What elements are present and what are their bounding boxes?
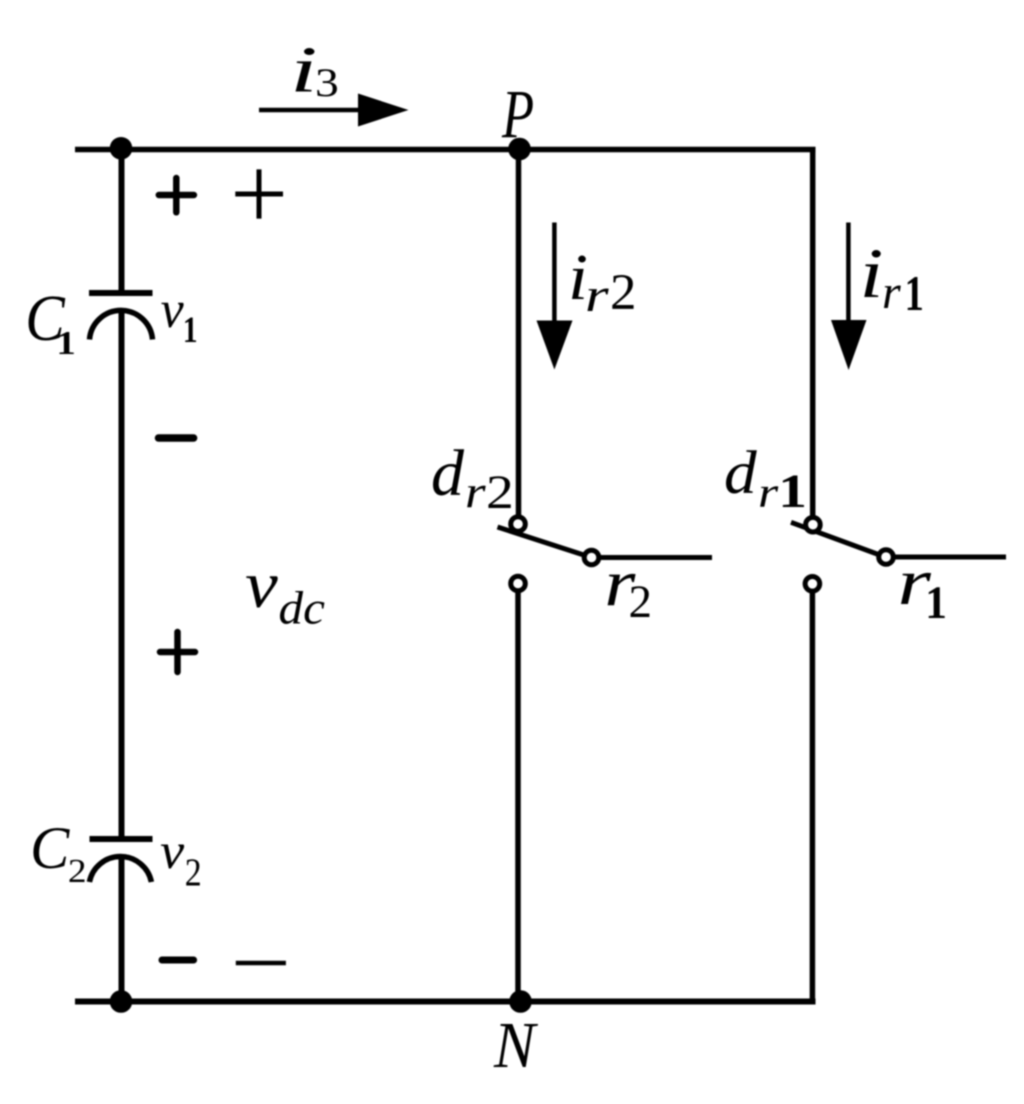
svg-text:C: C [30, 815, 70, 882]
svg-text:3: 3 [315, 60, 339, 105]
svg-text:1: 1 [925, 577, 947, 629]
svg-text:r: r [465, 466, 486, 517]
svg-text:2: 2 [486, 466, 514, 519]
svg-text:v: v [160, 823, 184, 879]
svg-text:2: 2 [629, 576, 653, 628]
svg-text:i: i [290, 34, 318, 107]
svg-text:1: 1 [778, 466, 807, 518]
svg-text:v: v [245, 547, 278, 622]
svg-text:P: P [501, 75, 534, 152]
svg-text:d: d [724, 440, 757, 507]
svg-text:1: 1 [905, 265, 924, 321]
svg-text:dc: dc [279, 583, 326, 635]
svg-text:2: 2 [610, 265, 637, 321]
svg-text:r: r [758, 469, 779, 517]
svg-text:2: 2 [68, 853, 87, 890]
svg-text:N: N [493, 1009, 539, 1082]
svg-text:1: 1 [183, 310, 198, 351]
svg-text:1: 1 [56, 325, 75, 362]
svg-text:d: d [431, 437, 465, 510]
svg-text:r: r [585, 269, 609, 322]
svg-text:2: 2 [185, 851, 202, 894]
svg-text:v: v [161, 281, 185, 339]
svg-text:i: i [860, 235, 884, 313]
svg-text:r: r [882, 266, 901, 319]
